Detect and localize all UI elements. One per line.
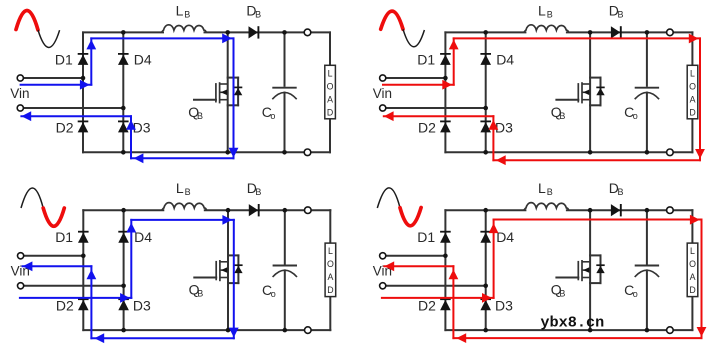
label QB (B top-right) [551, 104, 566, 121]
wire: top rail left section (D bottom-right) [445, 209, 525, 211]
capacitor Co (C bottom-left) [273, 210, 297, 330]
wire: right edge to load (A top-left) [329, 32, 331, 65]
junction node (A top-left-7) [225, 150, 230, 155]
current path D bottom-right: top rail through LB and DB [494, 215, 702, 225]
wire: load to bottom rail (B top-right) [691, 119, 693, 153]
capacitor Co (B top-right) [635, 32, 659, 152]
wire: Vin- lead (C bottom-left) [24, 285, 124, 287]
svg-text:O: O [327, 81, 334, 91]
terminal: Vin- input (B top-right) [380, 105, 386, 111]
diode D1 (D bottom-right) [440, 232, 451, 243]
svg-text:D2: D2 [56, 297, 74, 313]
wire: top rail right section (B top-right) [567, 31, 693, 33]
output terminal bottom (B top-right) [667, 149, 674, 156]
diode D1 (B top-right) [440, 54, 451, 65]
output terminal top (D bottom-right) [667, 207, 674, 214]
label QB (C bottom-left) [189, 282, 204, 299]
wire: Vin+ lead (C bottom-left) [24, 255, 84, 257]
wire: bottom rail (C bottom-left) [83, 329, 330, 331]
terminal: Vin- input (C bottom-left) [18, 283, 24, 289]
diode D2 (B top-right) [440, 121, 451, 132]
wire: bottom rail (D bottom-right) [445, 329, 692, 331]
wire: top rail right section (A top-left) [205, 31, 331, 33]
load resistor LOAD (D bottom-right) [687, 243, 698, 297]
inductor LB (B top-right) [524, 25, 569, 33]
junction node (B top-right-5) [483, 106, 488, 111]
current path D bottom-right: bottom rail leftward [453, 333, 701, 343]
junction node (B top-right-4) [443, 76, 448, 81]
svg-text:D: D [327, 107, 333, 117]
terminal: Vin+ input (A top-left) [17, 75, 23, 81]
wire: load to bottom rail (C bottom-left) [329, 297, 331, 331]
junction node (C bottom-left-7) [226, 328, 231, 333]
svg-text:B: B [197, 289, 203, 299]
svg-text:o: o [271, 289, 276, 299]
MOSFET QB (C bottom-left) [194, 255, 242, 283]
svg-text:L: L [538, 2, 546, 18]
wire: top rail left section (A top-left) [83, 31, 163, 33]
svg-text:D2: D2 [418, 120, 436, 136]
junction node (D bottom-right-7) [588, 328, 593, 333]
load resistor LOAD (C bottom-left) [325, 243, 336, 297]
svg-text:D4: D4 [134, 229, 152, 245]
junction node (A top-left-4) [81, 76, 86, 81]
AC source A top-left: positive half-cycle (red, conducting) [16, 10, 38, 30]
current path A top-left: return to Vin- [21, 111, 131, 121]
junction node (D bottom-right-3) [645, 208, 650, 213]
load resistor LOAD (B top-right) [687, 65, 698, 119]
svg-text:Vin: Vin [373, 86, 392, 101]
current path A top-left: down through QB switch [229, 38, 239, 158]
svg-text:O: O [689, 81, 696, 91]
wire: bridge left leg D1/D2 (B top-right) [444, 32, 446, 152]
svg-text:o: o [633, 111, 638, 121]
svg-text:B: B [185, 187, 191, 197]
terminal: Vin+ input (C bottom-left) [18, 253, 24, 259]
wire: Vin- lead (D bottom-right) [386, 285, 486, 287]
current path A top-left: up through D1 [86, 38, 96, 84]
svg-text:B: B [618, 187, 624, 197]
label DB (B top-right) [609, 2, 624, 19]
wire: bottom rail (B top-right) [445, 151, 692, 153]
svg-text:D1: D1 [55, 229, 73, 245]
current path A top-left: Vin+ lead rightward [21, 80, 92, 90]
load resistor LOAD (A top-left) [325, 65, 336, 119]
current path C bottom-left: Vin- lead rightward [20, 293, 131, 303]
svg-text:B: B [255, 9, 261, 19]
terminal: Vin+ input (D bottom-right) [380, 253, 386, 259]
output terminal top (A top-left) [304, 29, 311, 36]
output terminal bottom (A top-left) [304, 149, 311, 156]
label LB (D bottom-right) [538, 180, 553, 197]
label LB (B top-right) [538, 2, 553, 19]
svg-text:o: o [270, 111, 275, 121]
current path D bottom-right: up through D2 [449, 266, 459, 338]
current path A top-left: up through D3 [126, 116, 136, 158]
AC source D bottom-right: negative half-cycle (red, conducting) [400, 208, 421, 226]
wire: bridge middle leg D4/D3 (A top-left) [122, 32, 124, 152]
junction node (C bottom-left-4) [81, 254, 86, 259]
diode D2 (D bottom-right) [440, 299, 451, 310]
diode DB boost diode (D bottom-right) [611, 204, 621, 216]
svg-text:A: A [327, 272, 333, 282]
svg-text:A: A [690, 272, 696, 282]
terminal: Vin+ input (B top-right) [380, 75, 386, 81]
MOSFET QB (B top-right) [556, 78, 604, 106]
svg-text:D4: D4 [134, 51, 152, 67]
output terminal top (B top-right) [667, 29, 674, 36]
junction node (B top-right-1) [483, 30, 488, 35]
wire: bridge middle leg D4/D3 (B top-right) [485, 32, 487, 152]
label Co (B top-right) [624, 104, 638, 121]
label Co (D bottom-right) [624, 282, 638, 299]
current path A top-left: bottom rail leftward [131, 153, 234, 163]
svg-text:B: B [618, 9, 624, 19]
svg-text:A: A [690, 94, 696, 104]
wire: QB drain-source branch (B top-right) [589, 32, 591, 152]
label QB (D bottom-right) [551, 282, 566, 299]
current path C bottom-left: up through D2 [87, 266, 97, 338]
current path C bottom-left: return to Vin+ [23, 261, 92, 271]
svg-text:D1: D1 [55, 51, 73, 67]
current path B top-right: top rail through LB and DB [454, 34, 700, 44]
svg-text:B: B [184, 9, 190, 19]
diode D4 (A top-left) [118, 54, 129, 65]
current path D bottom-right: return to Vin+ [384, 261, 453, 271]
wire: QB drain-source branch (C bottom-left) [227, 210, 229, 330]
junction node (C bottom-left-8) [283, 328, 288, 333]
junction node (A top-left-3) [282, 30, 287, 35]
svg-text:D4: D4 [496, 229, 514, 245]
current path B top-right: return to Vin- [384, 111, 494, 121]
svg-text:A: A [327, 94, 333, 104]
junction node (D bottom-right-2) [588, 208, 593, 213]
terminal: Vin- input (A top-left) [17, 105, 23, 111]
current path A top-left: top rail through LB to QB [91, 34, 233, 44]
svg-text:D3: D3 [133, 120, 151, 136]
junction node (D bottom-right-4) [443, 254, 448, 259]
label DB (C bottom-left) [247, 180, 262, 197]
junction node (A top-left-6) [121, 150, 126, 155]
MOSFET QB (D bottom-right) [556, 255, 604, 283]
svg-text:O: O [327, 259, 334, 269]
svg-text:B: B [559, 111, 565, 121]
AC source B top-right: negative half-cycle (black) [403, 29, 424, 47]
junction node (A top-left-5) [121, 106, 126, 111]
wire: Vin+ lead (A top-left) [23, 77, 83, 79]
svg-text:D: D [689, 285, 695, 295]
svg-text:D3: D3 [133, 297, 151, 313]
junction node (C bottom-left-3) [283, 208, 288, 213]
svg-text:D2: D2 [418, 297, 436, 313]
svg-text:D2: D2 [56, 120, 74, 136]
svg-text:L: L [690, 68, 695, 78]
label DB (D bottom-right) [609, 180, 624, 197]
wire: bridge left leg D1/D2 (D bottom-right) [444, 210, 446, 330]
label LB (C bottom-left) [176, 180, 191, 197]
svg-text:L: L [538, 180, 546, 196]
wire: top rail left section (C bottom-left) [83, 209, 163, 211]
junction node (D bottom-right-1) [483, 208, 488, 213]
current path B top-right: bottom rail leftward [493, 155, 700, 165]
svg-text:L: L [690, 246, 695, 256]
diode D2 (C bottom-left) [78, 299, 89, 310]
inductor LB (D bottom-right) [524, 203, 569, 211]
junction node (A top-left-2) [225, 30, 230, 35]
svg-text:B: B [197, 111, 203, 121]
svg-text:L: L [176, 2, 184, 18]
diode D3 (C bottom-left) [118, 299, 129, 310]
AC source D bottom-right: positive half-cycle (black) [377, 188, 400, 208]
svg-text:L: L [328, 68, 333, 78]
inductor LB (A top-left) [162, 25, 207, 33]
wire: right edge to load (C bottom-left) [329, 210, 331, 243]
svg-text:L: L [328, 246, 333, 256]
diode D3 (B top-right) [480, 121, 491, 132]
svg-text:D1: D1 [417, 51, 435, 67]
wire: top rail left section (B top-right) [445, 31, 525, 33]
wire: Vin- lead (A top-left) [23, 107, 123, 109]
svg-text:D4: D4 [496, 51, 514, 67]
current path B top-right: Vin+ lead rightward [383, 80, 454, 90]
svg-text:O: O [689, 259, 696, 269]
diode D1 (A top-left) [78, 54, 89, 65]
diode D1 (C bottom-left) [78, 232, 89, 243]
wire: bridge middle leg D4/D3 (C bottom-left) [123, 210, 125, 330]
diode D3 (D bottom-right) [480, 299, 491, 310]
svg-text:Vin: Vin [10, 86, 29, 101]
diode D3 (A top-left) [118, 121, 129, 132]
current path B top-right: up through D3 [489, 116, 499, 160]
wire: QB drain-source branch (D bottom-right) [589, 210, 591, 330]
wire: load to bottom rail (D bottom-right) [691, 297, 693, 331]
wire: bottom rail (A top-left) [83, 151, 330, 153]
wire: top rail right section (C bottom-left) [205, 209, 330, 211]
junction node (B top-right-3) [645, 30, 650, 35]
svg-text:B: B [547, 9, 553, 19]
current path C bottom-left: down through QB switch [229, 220, 239, 338]
current path C bottom-left: up through D4 [126, 220, 136, 298]
diode DB boost diode (C bottom-left) [249, 204, 259, 216]
label Co (C bottom-left) [262, 282, 276, 299]
label QB (A top-left) [188, 104, 203, 121]
svg-text:D3: D3 [495, 120, 513, 136]
output terminal bottom (C bottom-left) [305, 327, 312, 334]
wire: Vin+ lead (B top-right) [386, 77, 446, 79]
svg-text:B: B [547, 187, 553, 197]
diode D4 (B top-right) [480, 54, 491, 65]
wire: Vin- lead (B top-right) [386, 107, 486, 109]
svg-text:D: D [689, 107, 695, 117]
current path D bottom-right: Vin- lead rightward [382, 293, 494, 303]
label DB (A top-left) [246, 2, 261, 19]
current path C bottom-left: bottom rail leftward [91, 333, 233, 343]
label Co (A top-left) [262, 104, 276, 121]
diode DB boost diode (A top-left) [249, 26, 259, 38]
wire: top rail right section (D bottom-right) [567, 209, 693, 211]
wire: Vin+ lead (D bottom-right) [386, 255, 446, 257]
AC source C bottom-left: negative half-cycle (red, conducting) [43, 208, 64, 226]
diode D2 (A top-left) [78, 121, 89, 132]
junction node (D bottom-right-8) [645, 328, 650, 333]
junction node (B top-right-7) [588, 150, 593, 155]
inductor LB (C bottom-left) [162, 203, 207, 211]
current path C bottom-left: top rail through LB to QB [131, 215, 234, 225]
diode D4 (D bottom-right) [480, 232, 491, 243]
diode D4 (C bottom-left) [118, 232, 129, 243]
capacitor Co (D bottom-right) [635, 210, 659, 330]
capacitor Co (A top-left) [272, 32, 296, 152]
wire: bridge left leg D1/D2 (A top-left) [82, 32, 84, 152]
wire: bridge left leg D1/D2 (C bottom-left) [82, 210, 84, 330]
junction node (B top-right-2) [588, 30, 593, 35]
wire: right edge to load (D bottom-right) [691, 210, 693, 243]
svg-text:D3: D3 [495, 297, 513, 313]
junction node (B top-right-6) [483, 150, 488, 155]
junction node (A top-left-1) [121, 30, 126, 35]
wire: load to bottom rail (A top-left) [329, 119, 331, 153]
terminal: Vin- input (D bottom-right) [380, 283, 386, 289]
wire: right edge to load (B top-right) [691, 32, 693, 65]
junction node (C bottom-left-5) [121, 284, 126, 289]
current path B top-right: down through LOAD [695, 38, 705, 160]
junction node (A top-left-8) [282, 150, 287, 155]
svg-text:B: B [559, 289, 565, 299]
junction node (B top-right-8) [645, 150, 650, 155]
svg-text:L: L [176, 180, 184, 196]
svg-text:ybx8.cn: ybx8.cn [540, 314, 604, 332]
label LB (A top-left) [176, 2, 191, 19]
junction node (C bottom-left-2) [226, 208, 231, 213]
junction node (D bottom-right-5) [483, 284, 488, 289]
AC source B top-right: positive half-cycle (red, conducting) [381, 11, 403, 29]
diode DB boost diode (B top-right) [611, 26, 621, 38]
wire: QB drain-source branch (A top-left) [227, 32, 229, 152]
svg-text:o: o [633, 289, 638, 299]
svg-text:B: B [255, 187, 261, 197]
current path B top-right: up through D1 [449, 38, 459, 84]
output terminal top (C bottom-left) [305, 207, 312, 214]
junction node (C bottom-left-1) [121, 208, 126, 213]
svg-text:D: D [327, 285, 333, 295]
junction node (C bottom-left-6) [121, 328, 126, 333]
AC source A top-left: negative half-cycle (black) [38, 30, 60, 47]
current path D bottom-right: down through LOAD [697, 220, 707, 339]
svg-text:D1: D1 [417, 229, 435, 245]
MOSFET QB (A top-left) [194, 78, 242, 106]
current path D bottom-right: up through D4 [489, 220, 499, 298]
output terminal bottom (D bottom-right) [667, 327, 674, 334]
AC source C bottom-left: positive half-cycle (black) [21, 188, 43, 208]
junction node (D bottom-right-6) [483, 328, 488, 333]
wire: bridge middle leg D4/D3 (D bottom-right) [485, 210, 487, 330]
